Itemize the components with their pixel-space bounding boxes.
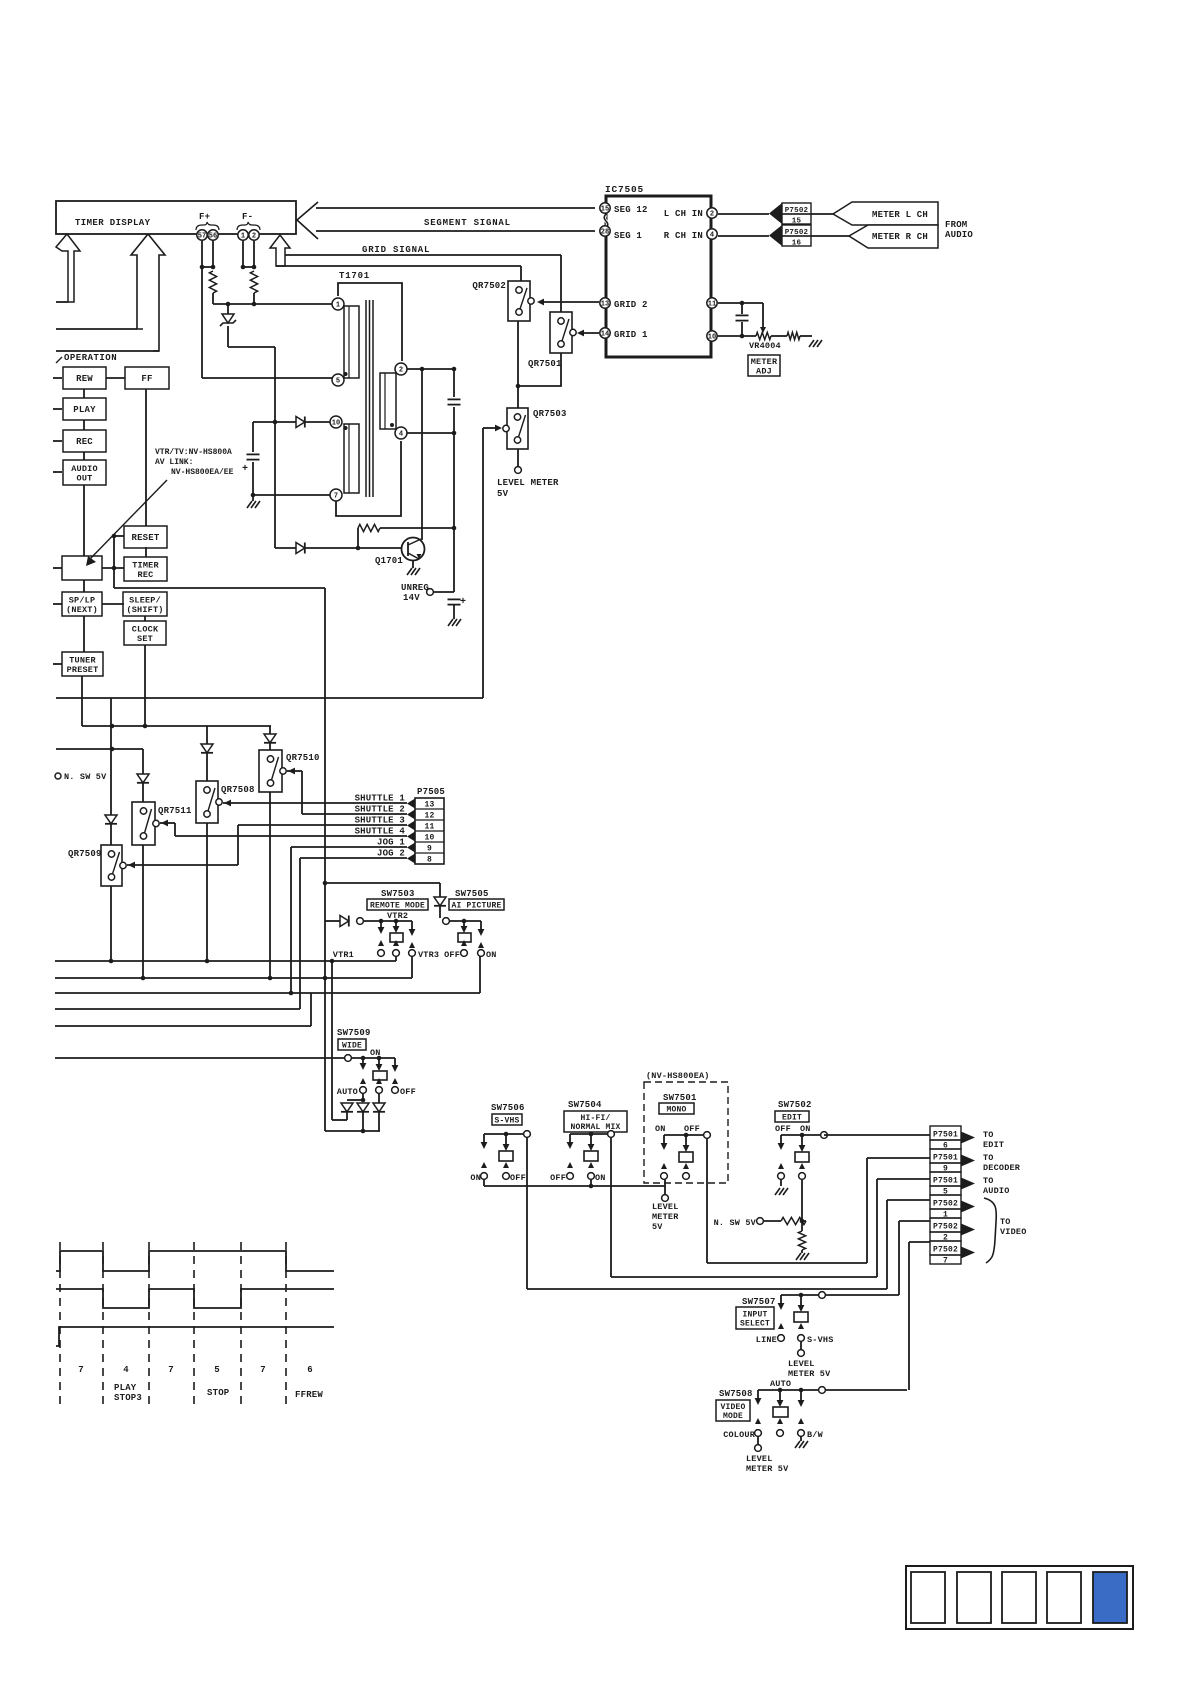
svg-text:VIDEO: VIDEO bbox=[720, 1403, 745, 1412]
svg-text:SHUTTLE 3: SHUTTLE 3 bbox=[355, 816, 405, 826]
svg-text:AI PICTURE: AI PICTURE bbox=[451, 901, 501, 910]
svg-text:4: 4 bbox=[399, 431, 403, 439]
svg-text:16: 16 bbox=[792, 240, 802, 248]
svg-text:4: 4 bbox=[123, 1365, 129, 1375]
svg-text:REC: REC bbox=[138, 570, 154, 580]
svg-text:11: 11 bbox=[424, 823, 434, 832]
svg-text:ON: ON bbox=[370, 1048, 381, 1058]
svg-text:AUTO: AUTO bbox=[337, 1087, 358, 1097]
svg-text:TIMER: TIMER bbox=[132, 560, 159, 570]
svg-text:VTR1: VTR1 bbox=[333, 950, 354, 960]
svg-text:T1701: T1701 bbox=[339, 271, 370, 281]
svg-text:SW7503: SW7503 bbox=[381, 889, 415, 899]
svg-text:57: 57 bbox=[198, 233, 206, 241]
svg-text:INPUT: INPUT bbox=[742, 1310, 767, 1319]
svg-text:SP/LP: SP/LP bbox=[69, 595, 96, 605]
svg-text:FROM: FROM bbox=[945, 220, 967, 230]
svg-text:VR4004: VR4004 bbox=[749, 341, 781, 351]
svg-text:+: + bbox=[242, 464, 248, 475]
svg-text:56: 56 bbox=[209, 233, 217, 241]
svg-text:P7505: P7505 bbox=[417, 787, 445, 797]
svg-text:VTR3: VTR3 bbox=[418, 950, 439, 960]
svg-text:SHUTTLE 4: SHUTTLE 4 bbox=[355, 827, 406, 837]
svg-text:PRESET: PRESET bbox=[67, 665, 99, 675]
svg-text:JOG 1: JOG 1 bbox=[377, 838, 405, 848]
svg-text:LEVEL: LEVEL bbox=[746, 1454, 773, 1464]
svg-text:10: 10 bbox=[708, 334, 716, 342]
svg-text:TO: TO bbox=[983, 1176, 994, 1186]
svg-text:6: 6 bbox=[307, 1365, 313, 1375]
svg-text:REW: REW bbox=[76, 374, 93, 384]
svg-text:SW7508: SW7508 bbox=[719, 1389, 753, 1399]
svg-text:TO: TO bbox=[1000, 1217, 1011, 1227]
svg-text:L CH IN: L CH IN bbox=[664, 209, 703, 219]
svg-text:UNREG: UNREG bbox=[401, 583, 429, 593]
svg-text:1: 1 bbox=[241, 233, 245, 241]
svg-text:OFF: OFF bbox=[400, 1087, 416, 1097]
svg-text:7: 7 bbox=[334, 493, 338, 501]
svg-text:ON: ON bbox=[470, 1173, 481, 1183]
svg-text:QR7502: QR7502 bbox=[472, 281, 506, 291]
svg-text:10: 10 bbox=[424, 834, 434, 843]
svg-text:MONO: MONO bbox=[666, 1105, 686, 1114]
svg-text:SLEEP/: SLEEP/ bbox=[129, 595, 161, 605]
svg-text:S-VHS: S-VHS bbox=[494, 1116, 519, 1125]
svg-text:GRID SIGNAL: GRID SIGNAL bbox=[362, 245, 430, 255]
svg-text:LEVEL: LEVEL bbox=[652, 1202, 679, 1212]
svg-text:Q1701: Q1701 bbox=[375, 556, 403, 566]
svg-text:SW7501: SW7501 bbox=[663, 1093, 697, 1103]
svg-text:HI-FI/: HI-FI/ bbox=[580, 1114, 610, 1123]
svg-text:QR7509: QR7509 bbox=[68, 849, 102, 859]
svg-text:1: 1 bbox=[336, 302, 340, 310]
svg-text:METER 5V: METER 5V bbox=[746, 1464, 789, 1474]
svg-text:FFREW: FFREW bbox=[295, 1390, 323, 1400]
svg-text:PLAY: PLAY bbox=[114, 1383, 137, 1393]
svg-text:2: 2 bbox=[710, 211, 714, 219]
svg-text:10: 10 bbox=[332, 420, 340, 428]
svg-text:P7502: P7502 bbox=[933, 1246, 958, 1255]
svg-text:OFF: OFF bbox=[775, 1124, 791, 1134]
svg-text:METER L CH: METER L CH bbox=[872, 210, 928, 220]
svg-text:B/W: B/W bbox=[807, 1430, 824, 1440]
svg-text:5: 5 bbox=[336, 378, 340, 386]
svg-text:WIDE: WIDE bbox=[342, 1041, 362, 1050]
svg-text:28: 28 bbox=[601, 229, 609, 237]
svg-text:SHUTTLE 2: SHUTTLE 2 bbox=[355, 805, 405, 815]
svg-text:TUNER: TUNER bbox=[69, 655, 96, 665]
svg-text:AUDIO: AUDIO bbox=[983, 1186, 1010, 1196]
svg-text:EDIT: EDIT bbox=[782, 1113, 802, 1122]
svg-text:SW7502: SW7502 bbox=[778, 1100, 812, 1110]
svg-text:REMOTE MODE: REMOTE MODE bbox=[370, 901, 425, 910]
svg-text:QR7510: QR7510 bbox=[286, 753, 320, 763]
svg-text:15: 15 bbox=[601, 206, 609, 214]
svg-text:LEVEL METER: LEVEL METER bbox=[497, 478, 559, 488]
svg-text:SELECT: SELECT bbox=[740, 1319, 770, 1328]
svg-text:2: 2 bbox=[252, 233, 256, 241]
svg-text:GRID 2: GRID 2 bbox=[614, 300, 648, 310]
svg-text:SW7505: SW7505 bbox=[455, 889, 489, 899]
svg-text:OFF: OFF bbox=[684, 1124, 700, 1134]
svg-text:OFF: OFF bbox=[550, 1173, 566, 1183]
svg-text:7: 7 bbox=[260, 1365, 266, 1375]
svg-text:REC: REC bbox=[76, 437, 93, 447]
svg-text:(SHIFT): (SHIFT) bbox=[126, 605, 163, 615]
svg-text:13: 13 bbox=[601, 301, 609, 309]
svg-text:ADJ: ADJ bbox=[756, 366, 772, 376]
svg-text:7: 7 bbox=[168, 1365, 174, 1375]
svg-text:SW7507: SW7507 bbox=[742, 1297, 776, 1307]
svg-text:SEG 12: SEG 12 bbox=[614, 205, 648, 215]
svg-text:METER 5V: METER 5V bbox=[788, 1369, 831, 1379]
svg-text:SEG 1: SEG 1 bbox=[614, 231, 642, 241]
svg-text:AV LINK:: AV LINK: bbox=[155, 458, 193, 467]
svg-text:R CH IN: R CH IN bbox=[664, 231, 703, 241]
svg-text:AUDIO: AUDIO bbox=[945, 230, 973, 240]
svg-text:GRID 1: GRID 1 bbox=[614, 330, 648, 340]
svg-text:(NEXT): (NEXT) bbox=[66, 605, 98, 615]
svg-text:SHUTTLE 1: SHUTTLE 1 bbox=[355, 794, 406, 804]
svg-text:8: 8 bbox=[427, 856, 432, 865]
svg-text:+: + bbox=[460, 597, 466, 608]
svg-text:N. SW 5V: N. SW 5V bbox=[714, 1218, 757, 1228]
svg-text:P7502: P7502 bbox=[933, 1200, 958, 1209]
svg-text:PLAY: PLAY bbox=[73, 405, 96, 415]
svg-text:P7501: P7501 bbox=[933, 1131, 958, 1140]
svg-text:RESET: RESET bbox=[131, 533, 159, 543]
svg-text:ON: ON bbox=[800, 1124, 811, 1134]
svg-text:EDIT: EDIT bbox=[983, 1140, 1004, 1150]
svg-text:13: 13 bbox=[424, 801, 434, 810]
svg-text:P7502: P7502 bbox=[785, 207, 809, 215]
svg-text:TIMER DISPLAY: TIMER DISPLAY bbox=[75, 218, 151, 228]
svg-text:SW7509: SW7509 bbox=[337, 1028, 371, 1038]
svg-text:F-: F- bbox=[242, 212, 253, 222]
svg-text:QR7503: QR7503 bbox=[533, 409, 567, 419]
svg-text:METER: METER bbox=[751, 357, 778, 367]
svg-text:TO: TO bbox=[983, 1153, 994, 1163]
svg-text:QR7511: QR7511 bbox=[158, 806, 192, 816]
svg-text:VIDEO: VIDEO bbox=[1000, 1227, 1027, 1237]
svg-text:STOP3: STOP3 bbox=[114, 1393, 142, 1403]
svg-text:5V: 5V bbox=[497, 489, 509, 499]
svg-text:QR7501: QR7501 bbox=[528, 359, 562, 369]
svg-text:P7502: P7502 bbox=[933, 1223, 958, 1232]
svg-text:P7501: P7501 bbox=[933, 1154, 958, 1163]
svg-text:P7501: P7501 bbox=[933, 1177, 958, 1186]
svg-text:METER R CH: METER R CH bbox=[872, 232, 928, 242]
svg-text:F+: F+ bbox=[199, 212, 210, 222]
svg-text:11: 11 bbox=[708, 301, 716, 309]
svg-text:S-VHS: S-VHS bbox=[807, 1335, 834, 1345]
svg-text:OPERATION: OPERATION bbox=[64, 353, 117, 363]
svg-text:(NV-HS800EA): (NV-HS800EA) bbox=[646, 1071, 710, 1081]
svg-text:JOG 2: JOG 2 bbox=[377, 849, 405, 859]
svg-text:MODE: MODE bbox=[723, 1412, 743, 1421]
svg-text:AUDIO: AUDIO bbox=[71, 464, 98, 474]
svg-text:N. SW 5V: N. SW 5V bbox=[64, 772, 107, 782]
svg-text:SW7506: SW7506 bbox=[491, 1103, 525, 1113]
svg-text:TO: TO bbox=[983, 1130, 994, 1140]
svg-text:14V: 14V bbox=[403, 593, 420, 603]
svg-text:OFF: OFF bbox=[510, 1173, 526, 1183]
svg-text:VTR/TV:NV-HS800A: VTR/TV:NV-HS800A bbox=[155, 448, 232, 457]
svg-text:4: 4 bbox=[710, 232, 714, 240]
svg-text:9: 9 bbox=[427, 845, 432, 854]
svg-text:2: 2 bbox=[399, 367, 403, 375]
svg-text:P7502: P7502 bbox=[785, 229, 809, 237]
svg-text:SW7504: SW7504 bbox=[568, 1100, 602, 1110]
svg-text:LINE: LINE bbox=[756, 1335, 777, 1345]
svg-text:FF: FF bbox=[141, 374, 152, 384]
svg-text:IC7505: IC7505 bbox=[605, 184, 644, 195]
svg-text:NV-HS800EA/EE: NV-HS800EA/EE bbox=[171, 468, 234, 477]
svg-text:COLOUR: COLOUR bbox=[723, 1430, 756, 1440]
svg-text:CLOCK: CLOCK bbox=[132, 624, 159, 634]
svg-text:7: 7 bbox=[78, 1365, 84, 1375]
svg-text:ON: ON bbox=[595, 1173, 606, 1183]
svg-text:AUTO: AUTO bbox=[770, 1379, 791, 1389]
svg-text:5: 5 bbox=[214, 1365, 220, 1375]
svg-text:OFF: OFF bbox=[444, 950, 460, 960]
svg-text:METER: METER bbox=[652, 1212, 679, 1222]
svg-text:ON: ON bbox=[655, 1124, 666, 1134]
svg-text:DECODER: DECODER bbox=[983, 1163, 1021, 1173]
svg-text:7: 7 bbox=[943, 1257, 948, 1266]
svg-text:LEVEL: LEVEL bbox=[788, 1359, 815, 1369]
svg-text:QR7508: QR7508 bbox=[221, 785, 255, 795]
svg-text:12: 12 bbox=[424, 812, 434, 821]
svg-text:14: 14 bbox=[601, 331, 609, 339]
svg-text:SEGMENT SIGNAL: SEGMENT SIGNAL bbox=[424, 218, 511, 228]
svg-text:ON: ON bbox=[486, 950, 497, 960]
svg-text:STOP: STOP bbox=[207, 1388, 230, 1398]
svg-text:OUT: OUT bbox=[77, 473, 93, 483]
svg-text:SET: SET bbox=[137, 634, 153, 644]
svg-text:5V: 5V bbox=[652, 1222, 663, 1232]
